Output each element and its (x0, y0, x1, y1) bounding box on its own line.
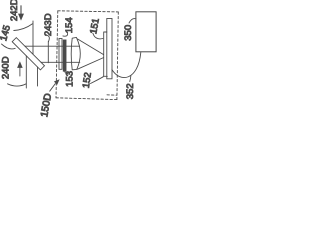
controller box 350 (136, 12, 156, 52)
leader 145 (2, 44, 16, 49)
leader 154 (63, 32, 68, 36)
svg-text:242D: 242D (9, 0, 20, 21)
beam arrow 242D (18, 6, 24, 21)
dashed assembly box 243D (56, 11, 118, 100)
panel body 151 (107, 19, 112, 79)
panel front plate 151 (103, 32, 107, 76)
ray bottom converging (78, 58, 104, 70)
leader 243D (47, 35, 50, 42)
ray bottom horizontal (41, 61, 80, 63)
leader 153 (65, 71, 68, 73)
svg-text:243D: 243D (43, 13, 54, 36)
svg-text:240D: 240D (1, 56, 12, 79)
svg-text:350: 350 (123, 25, 134, 41)
leader 240D (8, 84, 27, 86)
aperture bar 153 (63, 40, 66, 71)
svg-text:352: 352 (125, 83, 136, 99)
beam line 242D (32, 21, 34, 54)
ray top converging (77, 39, 103, 55)
window plate (59, 39, 62, 70)
beam arrow 150D (50, 79, 60, 91)
ray transmitted left (25, 56, 27, 88)
leader 350 (129, 19, 136, 23)
svg-text:154: 154 (64, 17, 75, 33)
beam arrow 240D (17, 61, 23, 76)
ray top horizontal (25, 45, 80, 47)
entrance pupil line (47, 42, 49, 63)
lens 152 (71, 37, 80, 69)
ray transmitted right (37, 67, 39, 86)
leader 152 (91, 77, 104, 84)
signal line 352 (112, 52, 141, 77)
leader 352 (130, 76, 131, 82)
leader 242D (14, 24, 33, 31)
mirror 145 (12, 38, 44, 70)
svg-text:152: 152 (81, 72, 94, 89)
leader 151 (93, 33, 103, 39)
